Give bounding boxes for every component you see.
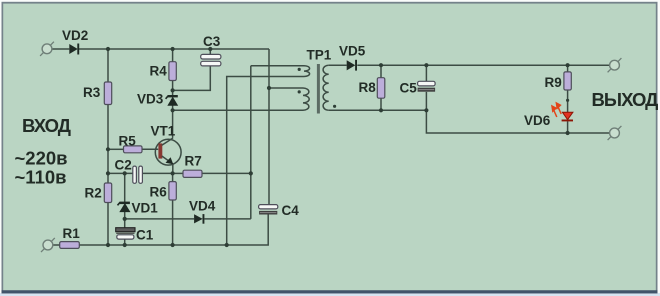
transformer TP1 primary winding I scallops bbox=[303, 88, 309, 110]
wire R5 to base bbox=[142, 148, 158, 150]
node top rail C3 bbox=[208, 47, 212, 51]
svg-text:C2: C2 bbox=[115, 157, 132, 172]
wire R3 column lower to C2 junction to R2 bbox=[107, 105, 109, 184]
capacitor C3 bbox=[201, 54, 221, 66]
diode VD4 bbox=[194, 214, 204, 224]
svg-text:C1: C1 bbox=[136, 227, 154, 242]
wire C1 bottom to rail bbox=[124, 239, 126, 245]
wire R7 left lead bbox=[173, 172, 183, 174]
wire R8 bottom lead bbox=[380, 98, 382, 110]
resistor R4 bbox=[169, 62, 176, 81]
svg-text:VD5: VD5 bbox=[339, 44, 366, 59]
wire R8 top lead bbox=[380, 65, 382, 78]
transistor VT1 bbox=[155, 138, 181, 165]
LED VD6 bbox=[552, 103, 573, 121]
node VD3 collector primary bbox=[171, 108, 175, 112]
wire collector vertical VT1 to node bbox=[172, 110, 174, 138]
wire R5 line left bbox=[108, 148, 124, 150]
wire R6 bottom lead to rail bbox=[172, 200, 174, 245]
wire R9 top lead bbox=[567, 65, 569, 72]
node rail C1 bbox=[123, 243, 127, 247]
svg-text:R8: R8 bbox=[359, 80, 377, 95]
node VD1 VD4 bbox=[123, 217, 127, 221]
wire primary winding bottom lead bbox=[173, 109, 303, 111]
svg-text:R5: R5 bbox=[119, 133, 137, 148]
wire R7 right lead to feedback node bbox=[202, 172, 251, 174]
terminal output bottom bbox=[608, 126, 622, 140]
node C2 tap R2 bbox=[106, 171, 110, 175]
wire C3 bottom lead down and left to VD3 junction bbox=[173, 66, 211, 91]
svg-text:VD1: VD1 bbox=[132, 201, 159, 216]
transformer TP1 feedback winding II scallops bbox=[304, 66, 310, 77]
wire VD1 top lead from C2 line bbox=[124, 173, 126, 202]
wire VD4 cathode to x250.8 corner bbox=[204, 218, 250, 220]
node rail feedback bbox=[225, 243, 229, 247]
svg-text:VD4: VD4 bbox=[189, 199, 216, 214]
resistor R3 bbox=[104, 82, 111, 105]
transformer phase dot primary bbox=[298, 90, 301, 93]
wire feedback vertical x250.8 down to VD4 wire bbox=[250, 66, 252, 219]
wire bottom rail R1 to C4 bottom bbox=[79, 214, 268, 245]
resistor R6 bbox=[169, 182, 176, 200]
svg-text:R7: R7 bbox=[185, 153, 202, 168]
svg-text:R3: R3 bbox=[83, 85, 101, 100]
svg-text:~110в: ~110в bbox=[15, 166, 67, 187]
wire top rail VD2 to corner bbox=[79, 48, 269, 50]
LED VD6 emission arrows bbox=[552, 103, 561, 117]
wire emitter vertical bbox=[172, 164, 174, 173]
wire C5 bottom down corner right to bottom output terminal bbox=[426, 92, 609, 133]
node R9 VD6 bbox=[566, 99, 569, 102]
svg-text:VD3: VD3 bbox=[137, 92, 164, 107]
wire R4 bottom to VD3 bbox=[172, 81, 174, 97]
svg-text:ВХОД: ВХОД bbox=[22, 115, 71, 136]
node top rail R4 bbox=[171, 47, 175, 51]
capacitor C2 bbox=[133, 166, 143, 183]
wire C5 top lead bbox=[425, 65, 427, 81]
wire R2 bottom to rail bbox=[107, 203, 109, 246]
wire VD1 bottom to C1 bbox=[124, 212, 126, 228]
node VD5 R8 bbox=[379, 63, 383, 67]
diode VD5 bbox=[347, 60, 357, 71]
resistor R5 bbox=[124, 146, 143, 153]
wire feedback winding bottom lead and x226.7 vertical bbox=[227, 77, 304, 246]
capacitor C5 bbox=[418, 81, 436, 91]
wire vertical x269 top rail down to C4 top bbox=[268, 49, 270, 205]
node rail R2 bbox=[106, 243, 110, 247]
svg-text:R1: R1 bbox=[63, 226, 81, 241]
terminal input top bbox=[40, 42, 54, 56]
capacitor C4 bbox=[259, 205, 278, 215]
wire VD5 to output terminal top rail bbox=[357, 64, 609, 66]
zener diode VD3 bbox=[166, 95, 178, 105]
wire R4 top lead bbox=[172, 49, 174, 62]
node VD1 top tap bbox=[123, 171, 127, 175]
wire top rail terminal to VD2 bbox=[52, 48, 69, 50]
wire secondary bottom lead bbox=[329, 109, 427, 111]
wire C2 line left bbox=[108, 172, 133, 174]
node R7 feedback bbox=[249, 171, 253, 175]
svg-text:VD6: VD6 bbox=[524, 113, 551, 128]
transformer TP1 core bbox=[317, 64, 320, 114]
wire R9 to VD6 bbox=[567, 90, 569, 112]
svg-text:~220в: ~220в bbox=[15, 147, 68, 168]
wire bottom rail terminal to R1 bbox=[53, 244, 60, 246]
svg-text:C4: C4 bbox=[282, 203, 300, 218]
resistor R7 bbox=[183, 170, 202, 177]
resistor R9 bbox=[564, 72, 571, 90]
resistor R1 bbox=[60, 242, 80, 249]
resistor R8 bbox=[377, 78, 385, 99]
transformer phase dot secondary bbox=[333, 105, 336, 108]
node R5 tap bbox=[106, 147, 110, 151]
node primary top lead bbox=[267, 86, 271, 90]
wire VD1 to VD4 anode bbox=[125, 218, 194, 220]
zener diode VD1 bbox=[118, 202, 130, 212]
capacitor C1 bbox=[116, 228, 135, 239]
svg-text:VD2: VD2 bbox=[62, 28, 88, 43]
wire VD3 bottom to primary junction bbox=[172, 105, 174, 110]
svg-text:C3: C3 bbox=[203, 34, 221, 49]
svg-text:R9: R9 bbox=[545, 75, 562, 90]
wire feedback winding top lead bbox=[251, 65, 304, 67]
wire primary winding top lead bbox=[269, 87, 303, 89]
node R9 top bbox=[566, 63, 570, 67]
svg-text:ВЫХОД: ВЫХОД bbox=[592, 89, 659, 110]
wire VD6 bottom to rail bbox=[567, 121, 569, 133]
node rail R6 bbox=[171, 243, 175, 247]
wire C3 top lead bbox=[209, 49, 211, 54]
svg-text:VT1: VT1 bbox=[151, 124, 176, 139]
svg-text:R6: R6 bbox=[150, 184, 168, 199]
terminal output top bbox=[608, 58, 622, 72]
resistor R2 bbox=[104, 183, 111, 203]
wire R3 column upper bbox=[107, 49, 109, 82]
node top rail R3 bbox=[106, 47, 110, 51]
bottom navy bar bbox=[2, 290, 658, 293]
node R4 VD3 C3 bbox=[171, 88, 175, 92]
terminal input bottom bbox=[41, 238, 55, 252]
svg-text:TP1: TP1 bbox=[307, 47, 332, 62]
node VD6 bottom rail bbox=[566, 131, 570, 135]
svg-text:R2: R2 bbox=[85, 186, 102, 201]
bottom outer light blue strip bbox=[0, 293, 660, 296]
wire R6 top lead bbox=[172, 173, 174, 181]
node R8 bottom bbox=[379, 108, 383, 112]
node C5 top bbox=[424, 63, 428, 67]
wire secondary top lead to VD5 bbox=[329, 64, 347, 66]
wire C2 to emitter junction bbox=[142, 172, 172, 174]
node C5 bottom bbox=[424, 108, 428, 112]
transformer phase dot feedback bbox=[298, 68, 301, 71]
diode VD2 bbox=[69, 44, 79, 55]
svg-text:R4: R4 bbox=[150, 64, 168, 79]
transformer TP1 secondary winding III scallops bbox=[323, 65, 329, 110]
node emitter R6 R7 C2 bbox=[171, 171, 175, 175]
svg-text:C5: C5 bbox=[400, 80, 418, 95]
